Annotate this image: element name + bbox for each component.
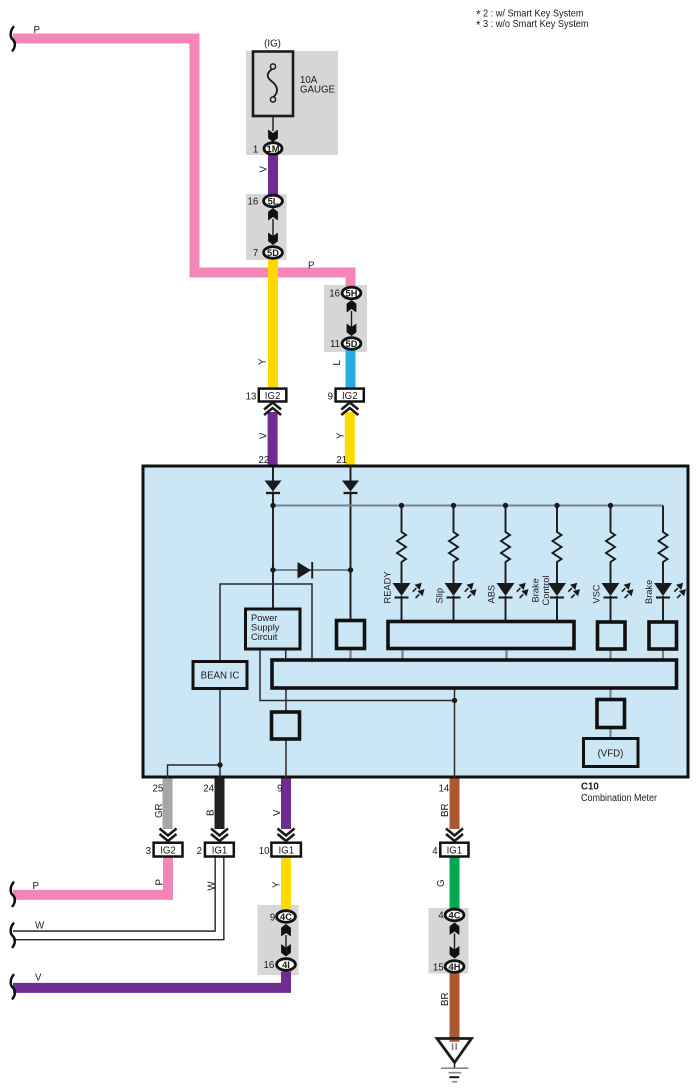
svg-text:5D: 5D — [346, 339, 358, 349]
svg-text:IG2: IG2 — [342, 391, 358, 402]
svg-text:7: 7 — [253, 248, 258, 259]
svg-text:W: W — [35, 921, 45, 932]
svg-text:16: 16 — [329, 289, 340, 300]
svg-text:W: W — [207, 881, 218, 891]
svg-text:9: 9 — [270, 912, 275, 923]
svg-text:IG1: IG1 — [212, 846, 228, 857]
svg-text:9: 9 — [328, 391, 333, 402]
svg-text:B: B — [206, 810, 217, 816]
svg-text:V: V — [35, 973, 42, 984]
svg-text:Circuit: Circuit — [251, 632, 278, 642]
svg-text:16: 16 — [248, 197, 259, 208]
svg-text:5D: 5D — [267, 248, 279, 258]
svg-text:3 : w/o Smart Key System: 3 : w/o Smart Key System — [483, 19, 589, 30]
svg-text:21: 21 — [336, 455, 347, 466]
svg-text:READY: READY — [383, 571, 393, 603]
svg-text:25: 25 — [153, 783, 164, 794]
svg-text:IG2: IG2 — [265, 391, 281, 402]
svg-text:5L: 5L — [268, 196, 279, 206]
svg-text:14: 14 — [439, 783, 450, 794]
svg-text:Slip: Slip — [435, 588, 445, 604]
svg-text:P: P — [308, 261, 314, 272]
svg-text:4: 4 — [438, 911, 444, 922]
svg-text:3: 3 — [146, 846, 151, 857]
svg-text:2 : w/ Smart Key System: 2 : w/ Smart Key System — [483, 9, 584, 20]
svg-text:V: V — [259, 166, 270, 173]
svg-text:4: 4 — [432, 846, 438, 857]
svg-text:4I: 4I — [282, 960, 290, 970]
svg-text:15: 15 — [433, 962, 444, 973]
svg-text:5H: 5H — [346, 288, 358, 298]
svg-text:G: G — [436, 879, 447, 887]
svg-text:L: L — [332, 360, 343, 366]
svg-text:16: 16 — [264, 960, 275, 971]
svg-text:BR: BR — [440, 804, 451, 817]
svg-text:1: 1 — [253, 144, 258, 155]
svg-text:4H: 4H — [449, 962, 461, 972]
svg-text:Control: Control — [541, 576, 551, 606]
svg-text:P: P — [155, 879, 166, 885]
svg-text:11: 11 — [330, 339, 340, 350]
svg-text:4C: 4C — [449, 910, 461, 920]
svg-text:1M: 1M — [267, 144, 280, 154]
svg-text:*: * — [476, 20, 481, 32]
svg-text:ABS: ABS — [487, 585, 497, 604]
svg-text:C10: C10 — [581, 782, 599, 793]
svg-text:Y: Y — [258, 358, 269, 365]
svg-text:Brake: Brake — [644, 580, 654, 604]
svg-text:22: 22 — [259, 455, 270, 466]
svg-text:V: V — [259, 432, 270, 439]
svg-text:Supply: Supply — [251, 623, 280, 633]
svg-text:Y: Y — [336, 432, 347, 439]
svg-text:10: 10 — [259, 846, 270, 857]
svg-text:P: P — [33, 881, 39, 892]
svg-text:(VFD): (VFD) — [598, 749, 624, 760]
svg-text:Power: Power — [251, 613, 277, 623]
svg-text:24: 24 — [203, 783, 214, 794]
svg-text:2: 2 — [197, 846, 202, 857]
svg-text:Combination Meter: Combination Meter — [581, 793, 658, 804]
svg-text:IG2: IG2 — [160, 846, 176, 857]
svg-text:Y: Y — [272, 881, 283, 888]
svg-text:P: P — [34, 25, 40, 36]
svg-text:BR: BR — [440, 993, 451, 1006]
svg-text:VSC: VSC — [592, 584, 602, 603]
svg-text:4C: 4C — [280, 912, 292, 922]
svg-text:V: V — [272, 809, 283, 816]
svg-text:9: 9 — [277, 783, 282, 794]
svg-text:13: 13 — [246, 391, 257, 402]
svg-text:(IG): (IG) — [264, 39, 281, 50]
svg-text:Brake: Brake — [531, 578, 541, 602]
svg-text:IG1: IG1 — [278, 846, 294, 857]
svg-text:GAUGE: GAUGE — [300, 85, 336, 96]
svg-text:GR: GR — [154, 803, 165, 818]
svg-text:BEAN IC: BEAN IC — [201, 671, 240, 682]
svg-text:IG1: IG1 — [447, 846, 463, 857]
